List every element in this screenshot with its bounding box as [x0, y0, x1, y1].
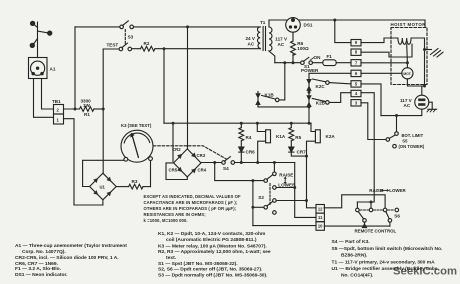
- wire bridge riser from top row: [187, 27, 189, 149]
- svg-text:ON: ON: [314, 55, 322, 60]
- wire TEST node riser: [163, 49, 165, 124]
- wire S2 common vertical: [252, 181, 254, 226]
- svg-text:K2A: K2A: [326, 134, 336, 139]
- svg-text:CR7: CR7: [297, 150, 307, 155]
- wire TB1-1 to U1 bottom rail: [64, 119, 103, 205]
- svg-text:U1: U1: [100, 185, 106, 190]
- labels connector 12 11 10: [318, 206, 323, 228]
- svg-text:100Ω: 100Ω: [297, 46, 309, 51]
- svg-text:S3: S3: [128, 35, 134, 40]
- svg-text:S6: S6: [394, 213, 400, 218]
- switch S3 (upper pole): [120, 21, 134, 29]
- wire receptacle to chassis ground: [429, 102, 432, 109]
- svg-text:TEST: TEST: [107, 43, 119, 48]
- resistor R5: [289, 123, 294, 147]
- relay coil K1A: [257, 123, 270, 162]
- svg-text:S3 — Dpdt normally off (JBT No: S3 — Dpdt normally off (JBT No. MS-35069…: [158, 273, 268, 279]
- schematic units note: [144, 194, 242, 223]
- svg-text:coil (Auromatic Electric PG 24: coil (Auromatic Electric PG 24808-811.): [166, 237, 257, 243]
- resistor R6: [291, 32, 296, 63]
- wire terminal-6 feed to K2C: [309, 73, 351, 123]
- caption column 2: [158, 231, 271, 279]
- svg-text:Corp. No. 14077Q).: Corp. No. 14077Q).: [22, 249, 66, 255]
- svg-text:AC: AC: [248, 41, 255, 46]
- wire terminal 9 to winding top: [361, 38, 398, 43]
- terminal strip TB2 terminals 9-3: [351, 40, 361, 107]
- wire receptacle bottom / S5 / terminal 5 tie: [381, 109, 422, 132]
- wire terminal 4 right riser to S6 lower row: [357, 93, 374, 202]
- svg-text:T1: T1: [260, 20, 266, 25]
- mechanical link S3 dashed: [124, 30, 126, 46]
- svg-text:RESISTANCES ARE IN OHMS;: RESISTANCES ARE IN OHMS;: [144, 212, 206, 217]
- limit switch S5: [386, 132, 398, 148]
- wire terminal 5 riser: [361, 84, 381, 116]
- svg-text:OTHERS ARE IN PICOFARADS ( pF: OTHERS ARE IN PICOFARADS ( pF OR µµF);: [144, 206, 237, 211]
- hoist motor dashed enclosure: [391, 28, 427, 85]
- svg-text:EXCEPT AS INDICATED, DECIMAL V: EXCEPT AS INDICATED, DECIMAL VALUES OF: [144, 194, 242, 199]
- svg-text:K1B: K1B: [265, 93, 275, 98]
- wire lower row stubs: [356, 202, 358, 208]
- resistor R4: [239, 123, 244, 147]
- chassis ground (motor frame): [431, 49, 444, 58]
- relay contact K2C: [307, 79, 351, 90]
- wire winding to frame/receptacle drop: [411, 38, 424, 86]
- caption column 3: [332, 239, 443, 279]
- svg-text:S5: S5: [402, 139, 408, 144]
- svg-text:AC: AC: [278, 42, 285, 47]
- wire S4-row corner down to terminal 11: [295, 163, 316, 218]
- relay coil K2A: [307, 123, 321, 150]
- wire meter left terminal to U1 left vertex: [83, 160, 124, 186]
- svg-text:DS1 — Neon indicator.: DS1 — Neon indicator.: [15, 272, 68, 278]
- wire S2 pole2 top contact row: [276, 200, 306, 202]
- svg-text:SeekIC.com: SeekIC.com: [393, 266, 457, 278]
- svg-text:R4: R4: [246, 135, 252, 140]
- svg-text:CR6: CR6: [246, 150, 256, 155]
- svg-text:A1 — Three-cup anemometer: A1 — Three-cup anemometer (Taylor Instru…: [15, 243, 127, 249]
- svg-text:R5: R5: [295, 135, 301, 140]
- svg-text:R3: R3: [132, 179, 138, 184]
- hoist motor field winding: [398, 38, 411, 44]
- svg-text:R2: R2: [144, 41, 150, 46]
- terminal block TB1: [54, 105, 64, 125]
- arrow glyph S6 raise/lower: [381, 189, 390, 192]
- svg-text:(ON TOWER): (ON TOWER): [399, 144, 425, 149]
- wire remote common rail: [253, 225, 316, 227]
- bridge rectifier CR2-CR5: [174, 149, 201, 177]
- relay contact K1B: [256, 92, 279, 107]
- switch S3 lower pole (TEST): [103, 43, 131, 51]
- anemometer A1: [29, 21, 52, 78]
- svg-text:A1: A1: [50, 66, 56, 71]
- switch S4: [222, 157, 235, 165]
- receptacle 117V AC: [415, 95, 429, 109]
- svg-text:K2C: K2C: [316, 84, 326, 89]
- svg-text:S1 — Spst (JBT No. MS-35058-22: S1 — Spst (JBT No. MS-35058-22).: [158, 261, 238, 267]
- svg-text:k =1000, M=1000 000.: k =1000, M=1000 000.: [144, 218, 188, 223]
- svg-text:CR4: CR4: [198, 167, 207, 172]
- svg-text:K1A: K1A: [276, 134, 286, 139]
- wire S2 pole2 feed: [253, 206, 264, 208]
- arrow glyph S2 raise/lower: [284, 176, 287, 184]
- neon indicator DS1: [286, 18, 301, 33]
- wire rail riser to terminal 9: [335, 20, 351, 43]
- diode CR6: [239, 147, 244, 163]
- node dots: [74, 19, 337, 209]
- svg-text:F1: F1: [327, 54, 333, 59]
- fuse F1: [313, 60, 352, 66]
- svg-text:CR3: CR3: [197, 153, 206, 158]
- wire relay rail y123: [164, 122, 311, 124]
- switch S1: [301, 57, 314, 64]
- wire winding tap to MOT top: [406, 44, 409, 68]
- svg-text:REMOTE CONTROL: REMOTE CONTROL: [355, 229, 397, 234]
- wire K1B/K2B lower rail: [258, 106, 309, 108]
- svg-text:CAPACITANCE ARE IN MICROFARADS: CAPACITANCE ARE IN MICROFARADS ( µF );: [144, 200, 238, 205]
- wire K2A/CR7 vertical to terminal 12: [307, 150, 317, 208]
- mechanical link K3 to S4 dashed: [153, 146, 226, 159]
- svg-text:CR2-CR5, incl. — Silicon diode: CR2-CR5, incl. — Silicon diode 100 PRV, …: [15, 255, 119, 261]
- wire RAISE contact stub: [273, 163, 275, 173]
- svg-text:CR6, CR7 — 1N69.: CR6, CR7 — 1N69.: [15, 261, 59, 267]
- wire terminal 3 to S5: [361, 103, 386, 140]
- wire terminal 8 to under-winding line: [361, 44, 412, 57]
- labels terminals 9-3: [355, 40, 358, 105]
- svg-text:K3 — Meter relay, 100 µA (West: K3 — Meter relay, 100 µA (Weston No. S46…: [158, 243, 267, 249]
- wire S6 lower contacts to common rail: [364, 222, 366, 226]
- svg-text:CR2: CR2: [172, 147, 181, 152]
- relay contact K2B: [307, 93, 351, 107]
- wire S4 node drop to S2 pole1: [215, 163, 264, 181]
- node dots right: [363, 48, 426, 228]
- svg-text:F1 — 3.2 A, Slo-Blo.: F1 — 3.2 A, Slo-Blo.: [15, 266, 62, 272]
- svg-text:K2B: K2B: [316, 101, 326, 106]
- wire motor bottom to receptacle top: [407, 79, 424, 95]
- wire A1 right lead to TB1-2: [42, 79, 54, 110]
- svg-text:HOIST MOTOR: HOIST MOTOR: [391, 22, 427, 27]
- svg-text:RAISE: RAISE: [369, 188, 382, 193]
- wire connector 12 loop to S6 raise row: [324, 195, 385, 208]
- resistor R3: [116, 184, 150, 189]
- svg-text:CR5: CR5: [169, 167, 178, 172]
- wire LOWER contact row: [276, 187, 295, 189]
- wire CR-bridge right vertex to S4: [201, 162, 222, 164]
- svg-text:BZ86-2RN).: BZ86-2RN).: [341, 253, 368, 259]
- wire CR-bridge left vertex riser to relay rail: [172, 123, 174, 161]
- switch S6 (remote raise/lower): [356, 208, 399, 222]
- svg-text:12: 12: [318, 206, 323, 211]
- svg-text:RAISE: RAISE: [279, 173, 293, 178]
- wire terminal 6 to motor left: [361, 72, 402, 74]
- transformer T1: [258, 20, 275, 63]
- svg-text:R2, R3 — Approximately 12,000: R2, R3 — Approximately 12,000 ohm, 1-wat…: [158, 249, 271, 255]
- svg-text:11: 11: [318, 215, 323, 220]
- resistor R1: [64, 107, 104, 112]
- wire secondary bottom row to S1: [275, 62, 301, 64]
- svg-text:AC: AC: [404, 103, 411, 108]
- svg-text:LOWER: LOWER: [278, 182, 296, 187]
- caption column 1: [15, 243, 127, 278]
- svg-text:S4: S4: [223, 166, 229, 171]
- svg-text:POWER: POWER: [301, 68, 319, 73]
- svg-text:text.: text.: [166, 255, 177, 261]
- svg-text:S4 — Part of K3.: S4 — Part of K3.: [332, 239, 371, 245]
- chassis ground (receptacle): [427, 109, 437, 112]
- motor MOT: [402, 68, 413, 79]
- bridge rectifier U1: [90, 173, 117, 205]
- wire A1 left lead to TB1-1: [34, 79, 54, 118]
- wire S3 to transformer primary top: [134, 26, 261, 28]
- svg-text:DS1: DS1: [304, 23, 313, 28]
- svg-text:S5 —Spdt, bottom limit switch: S5 —Spdt, bottom limit switch (Microswit…: [332, 246, 443, 252]
- diode CR7: [289, 147, 307, 156]
- svg-text:No. CO14(4F).: No. CO14(4F).: [341, 273, 374, 279]
- wire 117V top rail (DS1 / motor feed): [269, 20, 425, 28]
- wire CR-bridge left vertex loop to bottom vertex: [166, 163, 187, 180]
- svg-text:S2, S6 — Dpdt center off (JBT,: S2, S6 — Dpdt center off (JBT, No. 35069…: [158, 267, 263, 273]
- wire S4 row to S2 feed corner: [235, 162, 295, 164]
- wire TEST-row left vertical down to U1 top: [102, 49, 104, 173]
- wire K1B riser from S1 row: [279, 63, 285, 100]
- svg-text:BOT. LIMIT: BOT. LIMIT: [402, 133, 424, 138]
- svg-text:1W: 1W: [83, 103, 91, 108]
- svg-text:MOT.: MOT.: [403, 72, 411, 76]
- svg-text:S2: S2: [258, 195, 264, 200]
- wire top row to S3: [75, 26, 120, 28]
- svg-text:10: 10: [318, 224, 323, 229]
- wire left vertical from top row to R1 node: [74, 27, 76, 109]
- junction arrow remote rail: [363, 224, 367, 227]
- switch S2 (dpdt center off): [264, 172, 276, 214]
- svg-text:K3 (SEE TEXT): K3 (SEE TEXT): [121, 123, 152, 128]
- wire meter right terminal to R3: [150, 161, 152, 187]
- svg-text:R1: R1: [84, 112, 90, 117]
- svg-text:K1, K2 — Dpdt, 10-A, 124-V con: K1, K2 — Dpdt, 10-A, 124-V contacts, 320…: [158, 231, 266, 237]
- component value labels: [50, 20, 427, 234]
- wire frame ground stub: [425, 49, 432, 51]
- resistor R2: [132, 46, 261, 51]
- meter relay K3: [121, 130, 153, 162]
- wire terminal 7 to MOT node: [361, 62, 407, 64]
- svg-text:LOWER: LOWER: [389, 188, 406, 193]
- svg-text:TB1: TB1: [52, 99, 61, 104]
- remote connector terminals 12 11 10: [316, 205, 324, 231]
